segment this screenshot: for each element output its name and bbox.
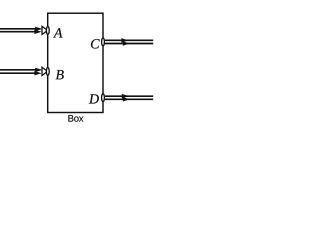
label B: [56, 70, 64, 79]
arrowhead filled input A upper: [35, 27, 42, 31]
wire input bus A lower: [0, 31, 37, 33]
wire output bus C upper: [105, 39, 153, 41]
box U1 outline: [48, 13, 103, 112]
port node A oval: [46, 27, 49, 35]
wire input bus B upper: [0, 69, 37, 71]
arrowhead filled input A lower: [34, 30, 41, 34]
arrowhead filled output C upper: [121, 38, 128, 43]
arrowhead open input B: [42, 67, 48, 75]
wire input bus B lower: [0, 72, 37, 74]
wire output bus D upper: [105, 95, 153, 97]
label C: [91, 39, 100, 48]
label D: [89, 94, 99, 103]
wire input bus A upper: [0, 28, 37, 30]
port node C oval: [102, 38, 105, 46]
wire output bus D lower: [105, 98, 153, 100]
arrowhead filled output D upper: [122, 94, 129, 99]
arrowhead filled output C lower: [123, 41, 130, 45]
arrowhead filled output D lower: [123, 97, 130, 101]
wire output bus C lower: [105, 43, 153, 45]
port node D oval: [102, 94, 105, 102]
arrowhead filled input B upper: [35, 68, 42, 72]
port node B oval: [46, 68, 49, 76]
arrowhead open input A: [42, 26, 48, 34]
label A: [53, 28, 62, 37]
arrowhead filled input B lower: [34, 71, 41, 75]
label Box caption: [68, 115, 83, 122]
